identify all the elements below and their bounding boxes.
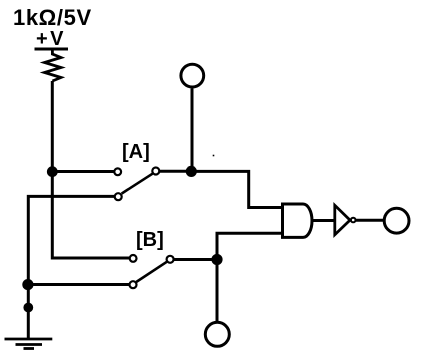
svg-text:+V: +V [36, 28, 66, 50]
svg-text:1kΩ/5V: 1kΩ/5V [13, 5, 92, 30]
wire: junction down to lamp 2 [216, 260, 219, 322]
wire: switch B pole to node under gate [174, 258, 217, 261]
node: junction dot left of switch A [47, 166, 58, 177]
ground [5, 339, 53, 349]
switch A lower throw terminal [115, 193, 122, 200]
wire: AND gate output to inverter [312, 219, 335, 222]
switch A upper throw terminal [114, 168, 121, 175]
switch B lever [136, 262, 167, 282]
node: junction right of switch B [211, 254, 222, 265]
speck noise dot [213, 155, 215, 157]
svg-text:[A]: [A] [122, 141, 150, 163]
wire: junction up then right to AND gate input B [217, 233, 282, 259]
resistor R1 [45, 49, 62, 81]
node: junction dot lower left [22, 279, 33, 290]
wire: main rail corner to switch B upper throw [52, 172, 129, 258]
switch B upper throw terminal [130, 255, 137, 262]
wire: switch A lower throw left and down the left side [28, 196, 114, 284]
+V power rail bar [35, 48, 69, 51]
wire: node to switch A upper throw [52, 170, 113, 173]
lamp 1 indicator circle [181, 64, 204, 87]
svg-text:[B]: [B] [136, 229, 164, 251]
switch A lever [122, 174, 153, 194]
switch B pole terminal [167, 256, 174, 263]
inverter U2 triangle [335, 205, 350, 234]
wire: inverter to output lamp [356, 219, 383, 222]
switch A pole terminal [152, 168, 159, 175]
wire: lamp 1 down to junction [191, 88, 194, 171]
wire: resistor bottom to node A row [51, 81, 54, 172]
wire: junction to switch B lower throw [28, 283, 129, 286]
node: dot above ground [23, 303, 33, 313]
AND gate U1 [283, 204, 313, 237]
switch B lower throw terminal [130, 281, 137, 288]
lamp 3 output indicator circle [384, 208, 409, 233]
wire: left junction down to ground [27, 285, 30, 340]
lamp 2 indicator circle [205, 322, 229, 346]
inverter U2 bubble [351, 218, 356, 223]
node: junction under lamp 1 [186, 166, 197, 177]
wire: switch A pole to node under lamp 1 [160, 170, 190, 173]
wire: junction right then down to AND gate input A [191, 171, 281, 207]
